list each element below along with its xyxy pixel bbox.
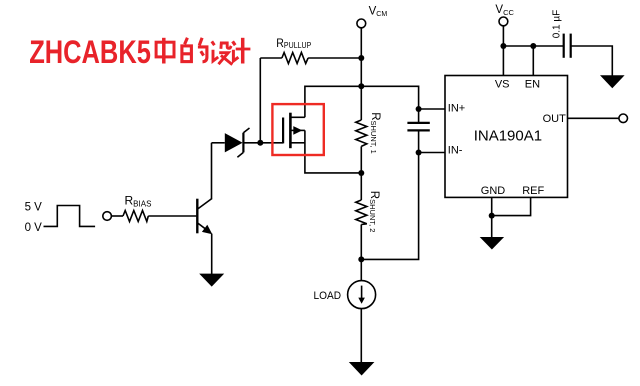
svg-text:VS: VS — [495, 79, 510, 91]
resistor R_SHUNT,1 (vertical) — [356, 120, 367, 146]
svg-text:0 V: 0 V — [25, 222, 43, 234]
wire: BJT collector vertical up to zener — [211, 143, 213, 199]
ground (GND/REF) — [480, 237, 504, 250]
node: cap top IN+ — [416, 106, 422, 112]
node: between shunts — [358, 170, 364, 176]
wire: EN pin vertical — [532, 46, 534, 76]
title CJK: SHE — [212, 41, 233, 64]
terminal: input — [103, 212, 112, 221]
wire: R_BIAS to BJT base — [148, 215, 196, 217]
title CJK: ZHONG — [156, 38, 174, 64]
transistor Q1 (NPN) — [197, 199, 212, 235]
title: ZHCABK5 (red, condensed bold) — [29, 35, 151, 71]
resistor R_PULLUP — [282, 53, 308, 64]
wire: bottom rail node to IN- column — [361, 153, 418, 260]
ground (bypass cap) — [600, 75, 625, 88]
svg-text:5 V: 5 V — [25, 201, 43, 213]
red highlight box around MOSFET — [272, 104, 323, 155]
resistor R_BIAS — [123, 211, 148, 222]
svg-text:REF: REF — [522, 185, 544, 197]
wire: zener anode wire — [212, 142, 225, 144]
transistor M1 (MOSFET in red box) — [283, 113, 305, 149]
ground (BJT emitter) — [199, 274, 224, 287]
wire: OUT to output terminal — [568, 117, 619, 119]
zener diode D1 — [225, 128, 250, 157]
svg-text:INA190A1: INA190A1 — [474, 127, 542, 144]
wire: IN+ from cap node to IC — [419, 108, 445, 110]
svg-text:0.1 µF: 0.1 µF — [551, 10, 562, 39]
wire: BJT emitter down to ground — [211, 234, 213, 274]
wire: zener cathode to gate node to MOSFET gate — [243, 142, 283, 144]
svg-text:GND: GND — [481, 185, 506, 197]
svg-text:EN: EN — [525, 79, 540, 91]
node: EN tap — [530, 43, 536, 49]
wire: Vcm vertical from terminal to R_SHUNT,1 top — [360, 28, 362, 120]
wire: IN- from cap node to IC — [419, 152, 445, 154]
wire: Vcc rail to bypass cap — [503, 45, 563, 47]
title CJK: DE — [182, 38, 207, 62]
capacitor C2 (0.1 uF bypass) — [564, 34, 571, 58]
svg-text:ZHCABK5: ZHCABK5 — [29, 35, 151, 71]
wire: R_SHUNT,2 bottom to LOAD source — [360, 225, 362, 281]
wire: top rail y=86.3 from MOSFET drain to cap corner — [305, 86, 419, 117]
title CJK: JI — [233, 38, 251, 64]
wire: Vcc terminal down — [502, 26, 504, 46]
wire: R_SHUNT,1 bottom to node A — [360, 146, 362, 200]
resistor R_SHUNT,2 (vertical) — [356, 200, 367, 225]
node: Vcc/VS — [500, 43, 506, 49]
wire: input terminal to R_BIAS — [111, 215, 123, 217]
node: R_PULLUP / Vcm — [358, 55, 364, 61]
wire: bypass cap to ground corner — [571, 46, 613, 76]
wire: GND/REF pins — [491, 197, 493, 237]
terminal: Vcc — [499, 17, 508, 26]
wire: R_PULLUP row y=58 — [260, 57, 282, 59]
svg-text:OUT: OUT — [543, 113, 567, 125]
node: IN+ rail tap — [358, 83, 364, 89]
svg-text:LOAD: LOAD — [313, 289, 341, 301]
svg-text:IN+: IN+ — [448, 102, 465, 114]
capacitor C1 (filter cap between IN+ and IN-) — [407, 123, 429, 130]
node: gate / zener — [257, 140, 263, 146]
svg-text:IN-: IN- — [448, 144, 463, 156]
wire: VS pin vertical — [502, 46, 504, 76]
node: GND/REF join — [489, 213, 495, 219]
terminal: Vcm — [357, 19, 366, 28]
wire: MOSFET source vertical and to node A — [305, 130, 361, 173]
terminal: OUT — [619, 114, 628, 123]
square wave input symbol — [44, 206, 96, 227]
current source LOAD — [348, 281, 376, 309]
junction dots — [257, 43, 536, 262]
node: bottom shunt / load — [358, 256, 364, 262]
wire: left vertical from R_PULLUP down to gate node — [259, 58, 261, 143]
ground (LOAD) — [349, 362, 375, 376]
IC U1 INA190A1 — [445, 76, 568, 198]
capacitor C1 vertical leads — [418, 109, 420, 122]
wire: LOAD source to ground — [360, 309, 362, 363]
node: cap bottom IN- — [416, 150, 422, 156]
